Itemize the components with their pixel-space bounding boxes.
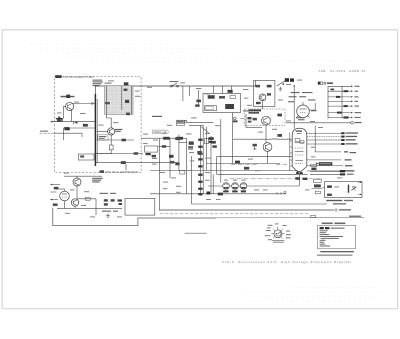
resistor R62 [85,198,90,201]
label: CRT LOW GLARE PROGRAM (bottom tab) [100,170,138,174]
svg-text:T4510: T4510 [153,130,161,134]
wire: vertical x=220.8 lamp feed [220,119,222,183]
capacitor C33 [248,117,252,119]
wire: drop from rail [125,164,127,170]
transistor Q5 [259,94,266,101]
resistor R10 [134,152,139,155]
resistor R26 [188,146,192,149]
resistor R45 [277,114,282,117]
wire: bottom rail of anti-glare stage [56,121,95,123]
wire: base rail into V3 [56,188,65,190]
ground (below C32) [253,147,256,149]
wire: long rail y=122 to terminal [286,122,351,124]
left entry arrows [50,184,60,201]
capacitor C31 [253,118,257,121]
wire: Q1 collector to bus [73,102,96,104]
wire: lower rail [64,127,96,129]
resistor R18 [175,163,179,166]
resistor R8 [109,145,113,150]
component value labels (scattered tiny text marks) [57,80,357,218]
capacitor C3 [80,155,84,157]
wire: V2 to ladder [309,103,316,110]
ghost bleed-through rows [30,44,385,302]
wire: Q3 collector [76,176,78,178]
wire: dash-dot separator y=164.6 [231,164,288,166]
wire: CRT left feed vertical [289,133,291,171]
wire: long grey rail y=217.6 [138,216,364,219]
wire: HT rail into oscillator [255,81,257,87]
label cluster right of V3 [100,193,119,212]
capacitor C1 [83,124,88,127]
electron tube V3 [60,189,70,201]
bias network box (bottom right) [325,181,362,197]
wire: drop x=191.5 [191,156,193,204]
resistor R16 [169,155,174,158]
wire: vertical x=170 down [169,138,171,178]
wire: vertical x=211 [210,136,212,194]
wire: dashed rail y=213.8 [160,213,310,215]
box: delay module [145,146,158,152]
resistor R61 [53,203,58,206]
label: CRT ANTI-GLARE SYSTEM (title tab) [55,75,93,79]
svg-text:CRT ANTI-GLARE SYSTEM: CRT ANTI-GLARE SYSTEM [63,76,93,79]
wire: diagonal transistor lead [201,127,209,134]
caption under rosette [272,240,285,243]
svg-text:FIG.1 Oscilloscope 34/A High: FIG.1 Oscilloscope 34/A High Voltage Sch… [223,260,352,264]
wire: feed from HT rail down into box [222,86,224,94]
resistor R63 stack [104,199,115,205]
terminal box on y=217 rail [311,215,316,217]
wire: vertical x=186.6 long [186,138,188,194]
transistor Q7 (below box) [263,143,272,152]
resistor R24 [197,151,202,154]
wire: y=176 rail [64,175,102,177]
wire: box bottom to mesh [232,113,234,164]
wire: dash-dot separator y=178.8 [230,178,322,180]
wire: vertical x=203.2 [202,125,204,194]
wire: rail y=193.8 with grounds [150,193,286,195]
wire: Q1 emitter down [71,110,73,122]
inductor L1 (black tee) [56,117,63,122]
wire: y=163.5 rail [207,163,281,165]
wire: riser to lower stage [63,128,65,140]
output arrows [358,181,361,183]
wire: emitter leg to rail [95,150,111,154]
svg-text:CRT LOW GLARE PROGRAM: CRT LOW GLARE PROGRAM [105,171,138,174]
note below table [320,251,354,252]
resistor ladder on x=198 [198,125,202,196]
label Q1 [61,95,75,98]
spare box (blank) [125,199,155,216]
wire: long rail y=210 [159,209,334,211]
ground (bottom-left stage) [106,214,110,218]
transistor Q8 (diagonal) [351,187,356,190]
resistor R40 [267,85,272,88]
resistor R46 [277,134,282,137]
wire: y=208.4 rail [57,207,122,209]
terminal on y=210 rail [335,209,351,211]
wire: mid horizontal rail y=140 [97,139,134,141]
capacitor C20 [225,104,234,109]
capacitor C7 [122,139,126,142]
label under bias box [326,200,342,201]
CRT type label (in dome) [296,130,302,132]
wire: x=213.5 drop from rail [213,86,215,94]
resistor R15 [152,155,156,158]
input module (left of bias box) [312,179,325,194]
terminal circle [184,120,187,123]
labels around V2 [288,92,317,120]
CRT grid electrodes [295,138,304,163]
svg-text:TAB. 51-4453 CARD 34: TAB. 51-4453 CARD 34 [319,69,366,73]
terminal cluster near anode box [233,117,244,122]
wire: top rail from can [95,86,104,94]
label on y=217 rail [349,216,361,217]
emphasized first row [320,227,330,229]
capacitor C2 [65,128,70,130]
bus wire: HV feedback (thick vertical) [95,94,97,166]
wire: vertical x=246 regulator feed [245,114,247,128]
label above can [105,83,112,84]
wire: y=133 feed [54,132,82,134]
wire: Q5-Q6 link [262,101,264,109]
transistor Q3 [73,178,81,186]
capacitor C13 [146,153,151,155]
resistor R31 (outline) [205,106,217,111]
wire: h-stub y=142 mid [179,142,187,144]
CRT right-side leads with labels [307,132,358,171]
capacitor C32 [253,144,257,147]
resistor R17 [170,161,174,164]
wire: Q6-Q7 link [265,125,267,143]
wire: diagonal from oscillator to J440 [277,81,285,86]
wire: vertical x=159.5 [159,138,161,210]
junction dots [95,103,97,155]
component blobs on x=211 [208,137,213,143]
resistor R2 [64,127,69,130]
wire: right vertical x=315.2 [314,126,316,153]
wire: tube base drop [299,172,301,186]
wire: ladder left vertical [327,86,329,118]
wire: V2 anode from HT [293,86,295,129]
resistor R41 [255,85,260,88]
voltage readings table [317,223,356,256]
transformer T4510 label plate [152,130,168,134]
wire: y=170.5 rail [150,170,298,172]
label Q2 [115,129,123,132]
wire: Q2 base from bus [97,130,108,132]
wire: Q4/V3 bottom drops [65,201,76,209]
node input label (dash-dot lead-in) [40,131,55,134]
resistor R6 (bottom of can) [126,113,130,116]
wire: loop left vertical x=216.7 [216,156,218,174]
transistor Q2 [108,128,115,135]
connector J440 (black blocks) [285,78,294,82]
rung component blobs [331,89,349,119]
component blob x=207 [207,192,211,195]
rung terminals with arrows [328,86,350,117]
CRT base pins (black) [296,172,303,174]
wire: CRT left feed y=139.2 [233,138,293,140]
rung labels [355,86,362,118]
resistor R34 [230,96,235,99]
wire: vertical x=206.5 [206,127,208,171]
capacitor C22 [235,161,240,164]
capacitor C41 on rail [218,193,223,196]
wire: h-stub y=146 [158,145,170,147]
label 4.5kV right of box [243,110,250,111]
label plate (bus tap) [98,135,108,140]
resistor R33 (above box) [228,90,233,93]
resistor R5 (top of can) [124,82,129,85]
wire: drop x=189.4 from HT rail [188,86,190,96]
wire: ladder right vertical [341,86,343,118]
wire: Q2 emitter down [110,135,112,145]
label on y=204 rail [333,203,346,204]
box: relay K1 [78,154,94,160]
resistor R50 (below detonator) [311,164,317,170]
capacitor C6 (inside can) [125,100,129,103]
resistor R21 [205,139,209,144]
wire: y=122.6 mid segment [187,122,214,124]
label Q3 [92,178,103,183]
transistor Q6 (in regulator box) [262,116,271,125]
transistor Q1 [66,102,74,110]
oscillator block (upper right) [254,81,275,107]
connector P440 label (left of ladder) [318,82,333,85]
wire: feeds into bias box area [310,171,340,174]
resistor R60 [54,187,59,190]
ground (near J440) [279,87,282,90]
wire: outline step (bottom-left boundary) [53,208,216,226]
resistor R42 [267,93,271,95]
ground at end of rail [276,191,286,194]
wire: drop x=82 [81,133,83,137]
wire: loop bottom y=174.4 [217,173,308,175]
neon lamps B1 B2 B3 [223,183,247,193]
wire: left drop x=198.4 [197,90,199,106]
switch SW501 on HT rail [170,81,179,87]
output terminal ladder [328,85,361,118]
resistor R70 [327,185,332,188]
resistor R32 [219,96,225,99]
wire: y=198.8 rail from Q3 [77,198,96,200]
resistor R9 [121,161,126,164]
label +4.5kV [152,116,162,117]
wire: vertical x=178.9 [178,135,180,171]
junction dot on HT rail [293,85,295,87]
DETONATOR inverse label [316,162,332,165]
wire: vertical x=213.2 [212,174,214,193]
resistor R20 boxes [176,120,184,125]
capacitor C23 [244,167,249,170]
diode CR1 [73,122,77,125]
wire: rail y=153.5 to right [95,153,143,155]
capacitor C21 (left of box) [195,100,201,107]
resistor R71 [327,194,332,196]
capacitor C15 [211,141,217,148]
wire: long rail y=204 [192,203,328,205]
wire: y=127.5 link [246,127,262,129]
wire: lamp rail y=186 [208,185,300,187]
resistor R7 (left mid can) [105,102,110,104]
CRT base connection diagram (rosette) [265,223,291,242]
wire: Q7 emitter down [267,151,269,163]
capacitor C30 [256,102,261,104]
wire: x=231.5 drop [231,86,233,94]
pin labels around rosette [265,223,291,240]
note text block (4 lines, top of box) [93,80,104,87]
resistor R25 [189,142,193,145]
resistor R27 [162,145,166,148]
wire: main HT rail (top, y=86) [133,85,256,87]
capacitor C12 (black pair) [163,137,183,140]
capacitor C40 (tube base) [295,177,307,180]
wire: y=138 rail [141,137,187,139]
wire: Q3 emitter [76,186,78,199]
capacitor C34 [248,121,252,123]
resistor R30 [208,95,215,99]
dashed enclosure: CRT anti-glare system [55,77,142,173]
transistor Q4 [71,199,78,206]
connector blobs above bias box [340,170,345,175]
wire: drop x=182.9 from HT rail [182,86,184,101]
resistor R23 [189,142,194,145]
resistor R1 (left of Q1) [57,119,62,122]
capacitor C60 [348,185,350,193]
regulator dashed box [245,109,286,125]
capacitor C5 (inside can) [124,89,128,91]
labels right of connector [347,170,355,174]
wire: CRT left feed y=155.4 [217,155,293,157]
terminal arrow: input at left edge [50,121,56,123]
faint note (left of caption area) [185,233,207,234]
rectifier tube V2 (round) [297,102,310,118]
wire: y=125.4 link [189,124,203,126]
junction dot [282,83,284,85]
high-voltage stipple module (transformer can) [105,86,133,115]
box: bias module [180,171,185,175]
wire: rail y=162.6 [95,162,178,164]
capacitor C50 [118,199,122,205]
resistor R22 [175,137,180,140]
wire: Q1 base left [64,106,66,118]
CRT left pin stubs [290,141,292,166]
CRT V1 envelope [290,128,307,174]
wire: x=96 drop [95,199,97,215]
wire: Q2 collector up [107,114,112,127]
terminal circle at end [351,122,362,125]
anode supply box (upper middle) [203,94,241,113]
